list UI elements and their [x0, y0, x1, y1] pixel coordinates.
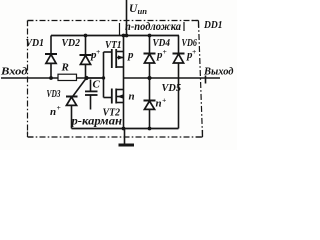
svg-text:DD1: DD1: [203, 20, 222, 31]
svg-text:VD2: VD2: [62, 38, 81, 49]
svg-text:VD1: VD1: [26, 38, 45, 49]
svg-text:п-подложка: п-подложка: [125, 21, 181, 33]
svg-text:+: +: [192, 47, 196, 56]
svg-text:р-карман: р-карман: [70, 116, 122, 128]
svg-text:R: R: [61, 62, 69, 74]
svg-text:VD3: VD3: [47, 89, 61, 100]
svg-text:ип: ип: [138, 7, 148, 16]
svg-text:VT1: VT1: [105, 40, 122, 51]
svg-text:Вход: Вход: [0, 66, 28, 78]
svg-text:n: n: [50, 106, 56, 118]
svg-text:+: +: [162, 96, 166, 105]
svg-text:+: +: [96, 47, 100, 56]
svg-text:p: p: [127, 49, 134, 61]
svg-text:Выход: Выход: [203, 66, 234, 78]
svg-text:VD4: VD4: [153, 38, 171, 49]
svg-text:C: C: [93, 79, 101, 91]
svg-text:+: +: [163, 47, 167, 56]
svg-text:+: +: [57, 103, 61, 112]
svg-text:n: n: [129, 91, 135, 103]
svg-text:VD5: VD5: [162, 83, 182, 94]
svg-text:n: n: [156, 98, 162, 110]
